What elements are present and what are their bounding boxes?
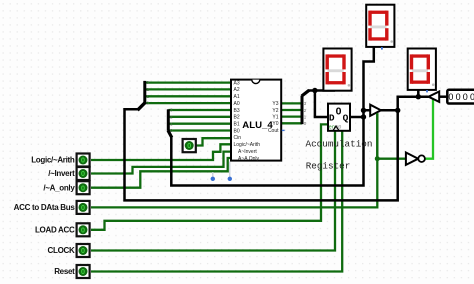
svg-text:LOAD ACC: LOAD ACC bbox=[35, 225, 75, 234]
ALU unconnected south stub 2 bbox=[229, 162, 231, 178]
svg-text:Y2: Y2 bbox=[272, 108, 278, 114]
input pin P1 Logic/~Arith bbox=[77, 154, 90, 167]
input pin P9 4-bit bus value 0000 bbox=[447, 90, 474, 104]
svg-text:Logic/~Arith: Logic/~Arith bbox=[234, 142, 261, 148]
svg-text:A0: A0 bbox=[234, 101, 240, 107]
wire branch to NOT input bbox=[377, 158, 406, 160]
input pin P3 /~A_only bbox=[77, 181, 90, 194]
svg-text:CLOCK: CLOCK bbox=[48, 246, 75, 255]
node bus at buffer1 output bbox=[395, 108, 400, 113]
svg-text:0: 0 bbox=[456, 92, 461, 102]
wire bus A left bbox=[125, 97, 429, 201]
svg-text:A2: A2 bbox=[234, 87, 240, 93]
svg-text:Y3: Y3 bbox=[272, 101, 278, 107]
input pin P4 ACC to DAta Bus bbox=[77, 201, 90, 214]
svg-text:B3: B3 bbox=[234, 108, 240, 114]
svg-text:Register: Register bbox=[306, 160, 351, 171]
ALU unconnected south stub 1 bbox=[212, 172, 214, 177]
wire Y0 bbox=[281, 122, 302, 124]
node ACC enable branch bbox=[375, 156, 380, 161]
svg-text:0: 0 bbox=[81, 169, 85, 178]
register U2 (Accumulation Register) bbox=[328, 104, 350, 131]
wire /~A_only pin to ALU bbox=[91, 158, 231, 188]
splitter bit labels Y bbox=[304, 101, 307, 126]
wire display3 input stub bbox=[417, 90, 420, 97]
node register Q branch bbox=[361, 114, 366, 119]
svg-text:B1: B1 bbox=[234, 122, 240, 128]
wire buffer1 enable bbox=[376, 113, 378, 159]
wire /~Invert pin to ALU bbox=[91, 152, 231, 174]
svg-text:0: 0 bbox=[448, 92, 453, 102]
ALU U1 box bbox=[231, 80, 281, 162]
wire register Q output bbox=[350, 116, 364, 119]
svg-text:B0: B0 bbox=[234, 128, 240, 134]
wire bus B feedback bbox=[171, 110, 363, 185]
input pin P7 Reset bbox=[77, 265, 90, 278]
node bus junction at Y splitter bbox=[312, 88, 317, 93]
wire B0 bbox=[169, 129, 232, 131]
wire Y1 bbox=[281, 115, 302, 117]
svg-text:A3: A3 bbox=[234, 80, 240, 86]
svg-text:Reset: Reset bbox=[54, 267, 75, 276]
wire B2 bbox=[169, 116, 232, 118]
svg-text:0: 0 bbox=[187, 141, 191, 150]
svg-text:ACC to DAta Bus: ACC to DAta Bus bbox=[14, 203, 76, 212]
wire 4bit pin to buffer2 bbox=[439, 95, 448, 98]
wire buffer1 output bbox=[381, 109, 398, 112]
svg-text:0: 0 bbox=[81, 203, 85, 212]
wire Cin pin to ALU bbox=[196, 138, 231, 145]
input pin P6 CLOCK bbox=[77, 244, 90, 257]
input pin P8 Cin bbox=[183, 139, 196, 152]
svg-text:Y0: Y0 bbox=[272, 121, 278, 127]
splitter A (bus to A3..A0) bbox=[138, 81, 146, 110]
svg-text:A~Invert: A~Invert bbox=[238, 149, 257, 155]
svg-text:Cin: Cin bbox=[234, 135, 242, 141]
wire display1 input bbox=[364, 47, 374, 110]
svg-text:D: D bbox=[329, 113, 335, 124]
svg-text:Logic/~Arith: Logic/~Arith bbox=[31, 156, 75, 165]
wire Y3 bbox=[281, 102, 302, 104]
wire A0 bbox=[145, 102, 231, 104]
wire Reset run bbox=[91, 131, 342, 272]
wire ACC to DAta Bus run bbox=[91, 113, 377, 207]
splitter bit labels A bbox=[147, 80, 150, 106]
svg-text:Q: Q bbox=[343, 113, 349, 124]
svg-text:0: 0 bbox=[470, 92, 474, 102]
wire NOT output to buffer2 enable (logic 1) bbox=[425, 99, 433, 158]
input pin P5 LOAD ACC bbox=[77, 223, 90, 236]
svg-text:/~A_only: /~A_only bbox=[43, 183, 75, 192]
svg-text:B2: B2 bbox=[234, 115, 240, 121]
wire CLOCK run bbox=[91, 131, 335, 251]
buffer U4 (input pin to bus, faces left) bbox=[429, 92, 440, 102]
wire A2 bbox=[145, 88, 231, 90]
svg-text:Y1: Y1 bbox=[272, 114, 278, 120]
input pin P2 /~Invert bbox=[77, 167, 90, 180]
buffer U3 (register to bus) bbox=[370, 105, 381, 116]
wire Logic/~Arith pin to ALU bbox=[91, 144, 231, 160]
splitter bit labels B bbox=[170, 108, 173, 134]
wire LOAD ACC run bbox=[91, 124, 328, 229]
svg-text:Cout: Cout bbox=[268, 128, 279, 134]
Cout unconnected stub bbox=[282, 129, 285, 131]
svg-text:0: 0 bbox=[463, 92, 468, 102]
splitter Y (Y3..Y0 to bus) bbox=[302, 90, 310, 124]
seven-seg display DS1 (top) bbox=[366, 5, 394, 50]
wire A3 bbox=[145, 81, 231, 83]
svg-text:A~A Only: A~A Only bbox=[238, 156, 259, 162]
node display1/buffer1 branch bbox=[361, 108, 366, 113]
svg-text:0: 0 bbox=[81, 156, 85, 165]
svg-text:Accumulation: Accumulation bbox=[306, 138, 373, 149]
svg-text:0: 0 bbox=[336, 105, 342, 117]
seven-seg display DS3 (right) bbox=[408, 49, 436, 93]
wire bus Y to display2 and register D bbox=[309, 88, 334, 91]
wire B1 bbox=[169, 123, 232, 125]
node display3 input bbox=[416, 94, 421, 99]
svg-text:0: 0 bbox=[81, 183, 85, 192]
wire register D input bbox=[315, 91, 328, 118]
svg-text:/~Invert: /~Invert bbox=[48, 169, 75, 178]
splitter B (bus to B3..B0) bbox=[168, 109, 172, 137]
wire Y2 bbox=[281, 109, 302, 111]
seven-seg display DS2 (left) bbox=[323, 49, 351, 91]
svg-text:A1: A1 bbox=[234, 94, 240, 100]
wire B3 bbox=[169, 109, 232, 111]
svg-text:0: 0 bbox=[81, 226, 85, 235]
svg-text:0: 0 bbox=[81, 267, 85, 276]
wire A1 bbox=[145, 95, 231, 97]
inverter U5 bbox=[406, 153, 418, 165]
svg-text:0: 0 bbox=[81, 246, 85, 255]
